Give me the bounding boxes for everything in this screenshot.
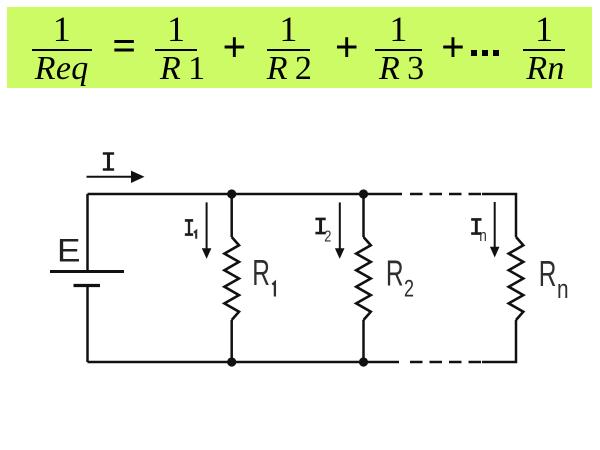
svg-text:R: R xyxy=(386,253,404,294)
svg-text:R: R xyxy=(252,252,270,293)
svg-text:R: R xyxy=(539,253,557,294)
svg-text:E: E xyxy=(57,234,80,269)
svg-text:n: n xyxy=(557,275,569,304)
svg-text:2: 2 xyxy=(324,228,331,246)
svg-text:I: I xyxy=(183,215,195,243)
svg-text:I: I xyxy=(100,150,116,180)
svg-text:2: 2 xyxy=(404,276,414,302)
svg-text:n: n xyxy=(479,227,487,246)
